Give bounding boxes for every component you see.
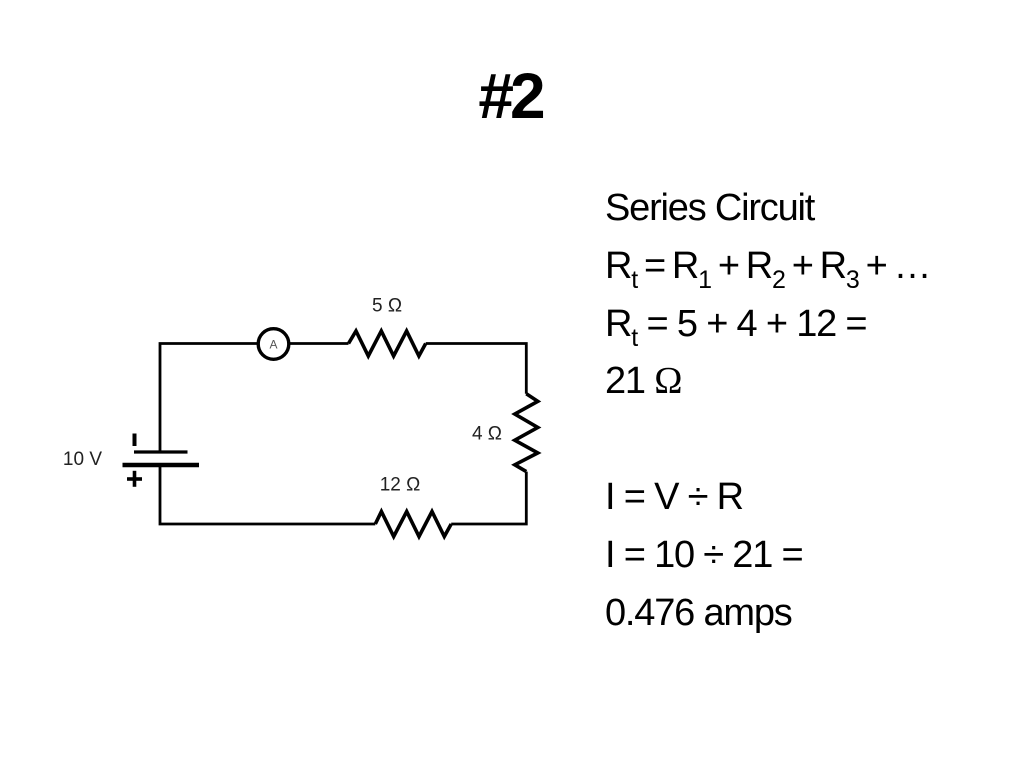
current label I: [133, 434, 137, 447]
value label 5 ohm: [372, 296, 402, 317]
battery V1 plate positive (bottom): [123, 463, 200, 468]
svg-text:4 Ω: 4 Ω: [472, 424, 502, 445]
svg-text:A: A: [269, 338, 277, 352]
polarity label +: [127, 471, 142, 487]
solution text block: [605, 180, 930, 642]
svg-text:12 Ω: 12 Ω: [380, 475, 421, 496]
value label 10 V: [63, 449, 102, 470]
wire top-right segment: [426, 344, 527, 394]
ammeter A: [258, 329, 289, 360]
resistor 12 ohm: [375, 512, 451, 537]
value label 4 ohm: [472, 424, 502, 445]
svg-text:5 Ω: 5 Ω: [372, 296, 402, 317]
resistor 4 ohm: [515, 394, 538, 472]
wire top-left segment (battery + to ammeter via top-left corner): [160, 344, 349, 453]
svg-text:10 V: 10 V: [63, 449, 102, 470]
value label 12 ohm: [380, 475, 421, 496]
battery V1 plate negative (top): [134, 450, 188, 453]
title: [0, 64, 1022, 128]
wire right-bottom segment: [451, 472, 526, 524]
wire bottom-left segment: [160, 466, 375, 524]
resistor 5 ohm: [349, 331, 426, 356]
